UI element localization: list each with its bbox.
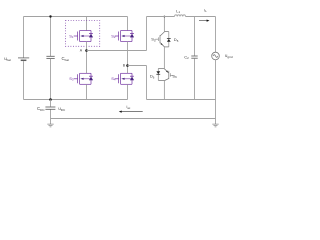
svg-text:D6: D6 bbox=[150, 74, 155, 80]
current arrow i_ac bbox=[119, 111, 143, 113]
battery u_bat bbox=[18, 58, 29, 60]
wire: S5 branch tap bbox=[163, 17, 165, 32]
wire: AC line right of inductor bbox=[186, 16, 216, 18]
capacitor C_DC bbox=[50, 100, 52, 125]
svg-text:S6: S6 bbox=[172, 73, 177, 79]
wire: leg B mid (S2 source to S4 drain) bbox=[127, 42, 129, 74]
node B bbox=[126, 64, 129, 67]
wire: node A output bbox=[87, 50, 147, 52]
switch S5 (IGBT) bbox=[160, 32, 169, 47]
current arrow i_L bbox=[199, 20, 210, 22]
ac source u_grid bbox=[212, 52, 220, 60]
inductor L1 bbox=[175, 15, 186, 17]
wire: ground line (earth bus) bbox=[51, 118, 216, 120]
wire: leg A lower (S3 source) bbox=[86, 84, 88, 99]
wire: S5-S6 link bbox=[163, 47, 165, 69]
svg-text:C2: C2 bbox=[184, 54, 189, 60]
mosfet S3 bbox=[74, 73, 93, 84]
node: S5 tap junction bbox=[164, 16, 166, 18]
ground (right earth) bbox=[212, 124, 218, 127]
svg-text:iac: iac bbox=[127, 105, 131, 110]
mosfet S1 bbox=[74, 31, 93, 42]
wire: C_bat upper leg bbox=[50, 17, 52, 57]
svg-text:S2: S2 bbox=[111, 33, 116, 39]
svg-text:S3: S3 bbox=[69, 76, 74, 82]
diode D6 bbox=[157, 69, 159, 81]
node A bbox=[85, 49, 88, 52]
svg-text:D5: D5 bbox=[174, 37, 179, 43]
svg-text:L1: L1 bbox=[176, 8, 180, 14]
wire: grid top riser bbox=[215, 17, 217, 53]
wire: bottom DC- bus bbox=[24, 99, 128, 101]
wire: C2 upper leg bbox=[194, 17, 196, 56]
svg-text:iL: iL bbox=[204, 7, 207, 13]
svg-text:S1: S1 bbox=[69, 33, 74, 39]
wire: leg B lower (S4 source) bbox=[127, 84, 129, 99]
node: C_bat top junction bbox=[49, 15, 51, 17]
wire: leg A mid (S1 source to S3 drain) bbox=[86, 42, 88, 74]
wire: C_bat lower leg bbox=[50, 59, 52, 100]
dashed box around S1 bbox=[66, 21, 100, 47]
wire: A riser to AC line bbox=[146, 17, 148, 51]
wire: AC line left of inductor bbox=[147, 16, 175, 18]
wire: neutral line bbox=[147, 99, 216, 101]
svg-text:S5: S5 bbox=[151, 37, 156, 43]
switch S6 (IGBT, mirrored) bbox=[158, 69, 169, 81]
mosfet S4 bbox=[115, 73, 134, 84]
capacitor C2 bbox=[191, 56, 197, 58]
wire: C2 lower leg bbox=[194, 58, 196, 99]
diode D5 bbox=[168, 32, 170, 47]
wire: S6 bottom to neutral bbox=[163, 80, 165, 99]
wire: leg B upper (S2 drain) bbox=[127, 17, 129, 31]
wire: grid bottom riser bbox=[215, 60, 217, 124]
wire: battery bottom riser bbox=[23, 61, 25, 99]
wire: B riser down to neutral bbox=[146, 66, 148, 100]
capacitor C_bat bbox=[46, 56, 54, 58]
node: C_DC top junction bbox=[49, 98, 52, 101]
wire: battery top riser bbox=[23, 17, 25, 58]
svg-text:S4: S4 bbox=[111, 76, 116, 82]
mosfet S2 bbox=[115, 31, 134, 42]
wire: leg A upper (S1 drain) bbox=[86, 17, 88, 31]
ground (left earth) bbox=[47, 124, 53, 127]
wire: top DC+ bus bbox=[24, 16, 128, 18]
wire: node B output bbox=[128, 65, 147, 67]
